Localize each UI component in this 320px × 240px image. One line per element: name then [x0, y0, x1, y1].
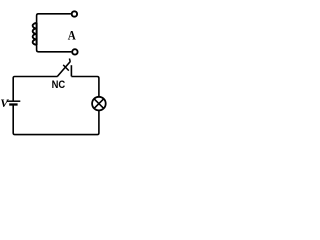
- switch blade tip: [68, 59, 71, 62]
- relay coil A (core bar): [36, 23, 38, 45]
- switch blade (NC contact): [57, 62, 70, 77]
- battery V negative plate (short thick): [9, 103, 17, 105]
- wire: switch to lamp: [71, 77, 99, 97]
- lamp (circle): [92, 97, 106, 111]
- switch fixed contact bar: [70, 65, 72, 76]
- lamp filament X: [94, 99, 103, 108]
- wire: battery + up and across to switch: [13, 77, 57, 101]
- svg-text:NC: NC: [52, 79, 66, 91]
- wire: lamp down and bottom return to battery: [13, 105, 99, 135]
- switch actuator tick: [63, 65, 69, 71]
- wire from coil top to terminal A1: [37, 14, 71, 23]
- terminal (bottom, open circle): [72, 49, 77, 54]
- relay coil A (turns): [33, 23, 37, 45]
- wire from coil bottom to terminal A2: [37, 45, 72, 52]
- terminal (top, open circle): [72, 11, 77, 16]
- svg-text:V: V: [0, 96, 9, 110]
- battery V positive plate (long): [7, 100, 21, 102]
- svg-text:A: A: [68, 27, 77, 42]
